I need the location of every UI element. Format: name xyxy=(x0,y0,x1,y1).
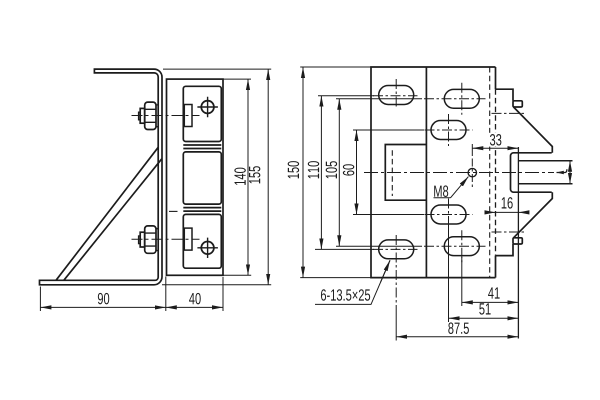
slot centerlines xyxy=(373,79,486,308)
window xyxy=(385,145,426,201)
hex bolt top xyxy=(139,102,159,129)
mounting plate (side) xyxy=(167,79,224,275)
dim 60 xyxy=(356,130,358,215)
left view dimensions xyxy=(40,69,271,311)
rail slot height dim xyxy=(569,161,571,184)
dim 155 xyxy=(267,69,269,285)
bolt centerlines xyxy=(132,116,200,240)
dim 33 xyxy=(471,144,473,156)
dim 140 xyxy=(247,79,249,275)
ext lines xyxy=(300,66,371,68)
gusset plate xyxy=(56,147,158,280)
rail segment 3 xyxy=(183,214,221,268)
slots xyxy=(379,86,480,259)
rail segment 1 xyxy=(183,86,221,141)
dimension texts xyxy=(489,133,504,147)
dim 87.5 xyxy=(396,336,518,338)
shared right extension xyxy=(517,147,519,339)
notch centerlines xyxy=(492,113,527,232)
plate outline xyxy=(371,67,496,278)
centerline leader arrow xyxy=(557,169,567,172)
dim 16 xyxy=(485,211,496,213)
right view dimensions xyxy=(300,67,570,341)
screw head bottom xyxy=(197,238,218,258)
hex bolt bottom xyxy=(139,226,159,253)
bracket body (web + top flange + bottom flange) xyxy=(40,69,163,285)
dim 51 xyxy=(449,317,519,319)
M8 hole xyxy=(468,168,476,176)
dim 110 xyxy=(320,96,322,250)
band stub xyxy=(169,210,178,212)
bolt T-head top xyxy=(184,105,192,251)
extension lines xyxy=(163,68,271,70)
dim 90 xyxy=(40,306,165,308)
rail segment 2 xyxy=(183,152,221,204)
hidden edge at plate right xyxy=(489,67,491,278)
clamp hidden back edge xyxy=(495,89,497,255)
dim 40 xyxy=(166,306,223,308)
rail band 2 xyxy=(183,208,221,212)
slot label leader xyxy=(315,260,390,304)
M8 leader xyxy=(434,197,451,199)
screw head top xyxy=(197,97,218,117)
divider xyxy=(425,67,427,278)
clamp profile xyxy=(496,89,573,255)
dim 150 xyxy=(302,67,304,278)
window hidden edge xyxy=(391,150,393,196)
dim 41 xyxy=(462,301,519,303)
main centerline xyxy=(364,172,554,174)
rail band 1 xyxy=(183,145,221,149)
dim 105 xyxy=(338,99,340,246)
